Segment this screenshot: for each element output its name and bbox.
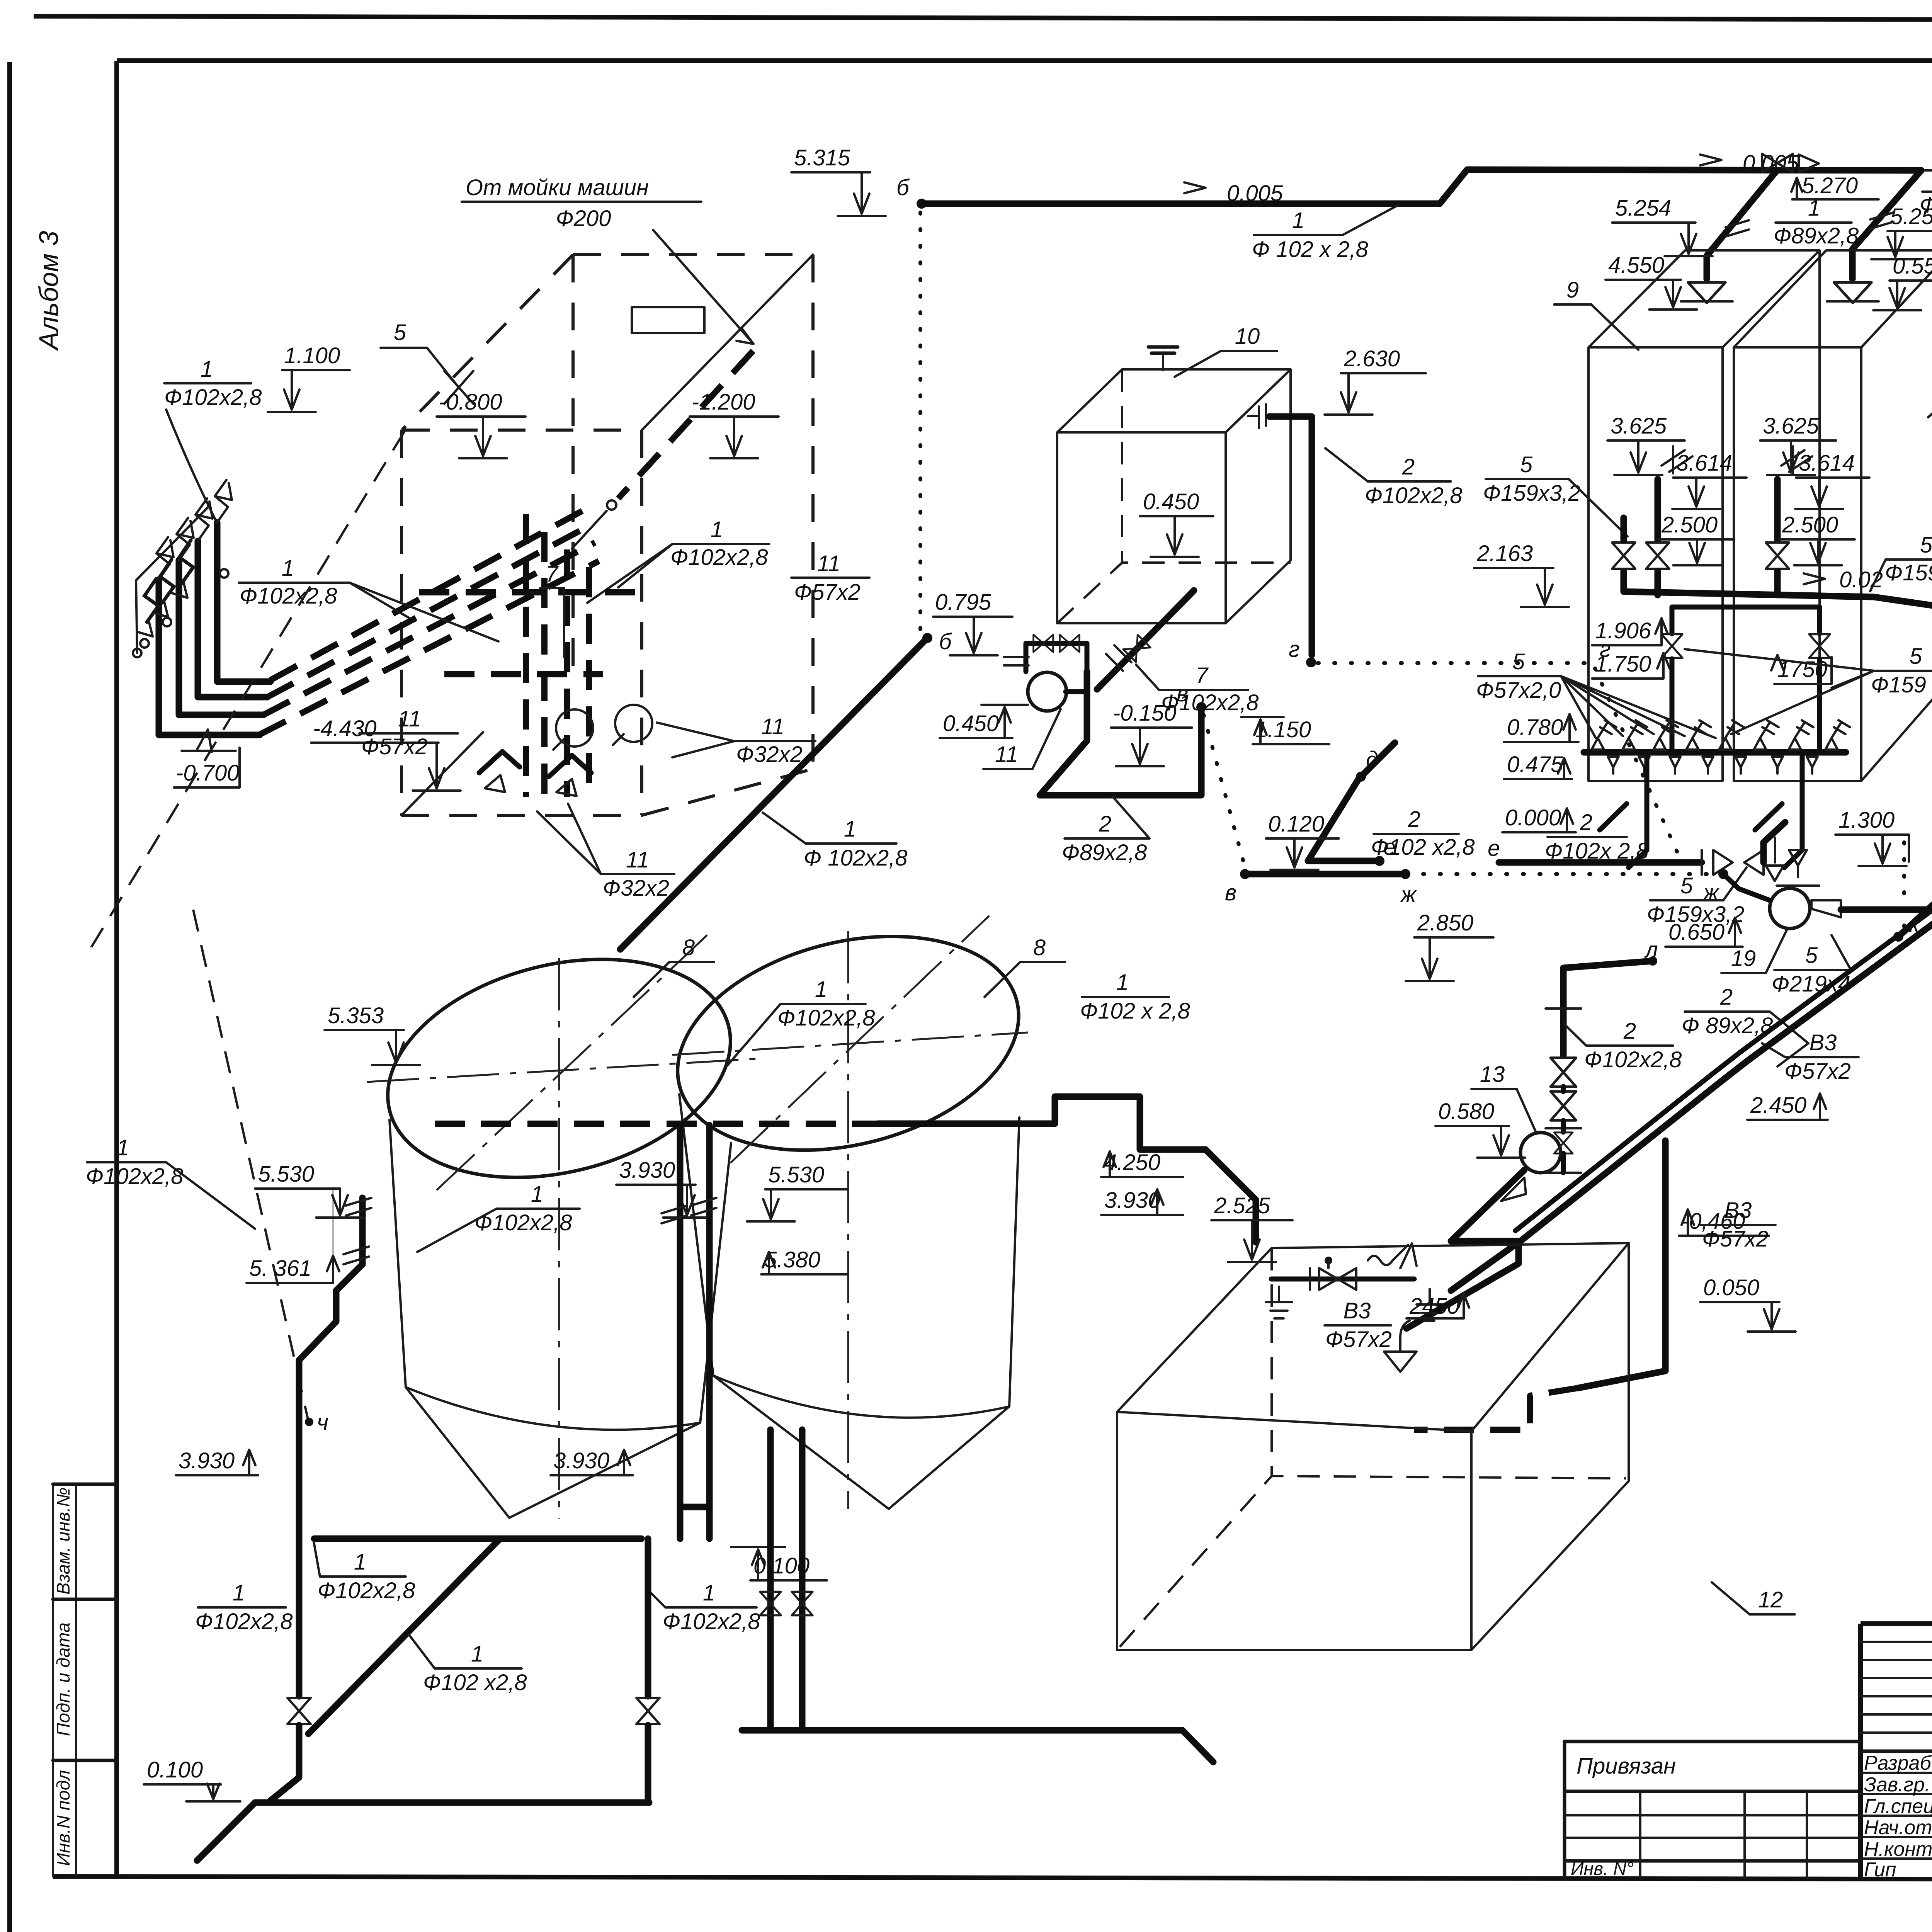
svg-text:2.500: 2.500 [1661,512,1718,537]
privyazan table [1565,1742,1861,1879]
stamp text Vzam inv [53,1487,73,1595]
tank 10 box front face [1057,432,1226,623]
label 0.475 [1504,752,1572,779]
svg-text:1: 1 [1808,196,1820,221]
svg-text:0.650: 0.650 [1668,920,1725,945]
label 5.252 [1923,130,1932,170]
label 1.906 [1592,618,1668,645]
svg-text:1: 1 [354,1549,366,1575]
left drop pipe with valve [270,1539,311,1801]
right tank internal riser [1777,446,1812,540]
svg-text:0.780: 0.780 [1507,715,1563,740]
label 5.380 [761,1247,848,1274]
svg-text:7: 7 [546,561,559,587]
label 1 F102x2.8 left column [195,1580,293,1634]
svg-text:Нач.отд: Нач.отд [1864,1816,1932,1839]
label 5.353 [325,1003,420,1065]
pump 13 circle [1501,1133,1561,1201]
svg-text:2.630: 2.630 [1344,346,1400,371]
riser into left tank 9 [1681,171,1776,303]
pipe from pump 13 down to box 12 [1406,1170,1524,1328]
label 0.795 [933,590,1012,655]
collector left valve [1612,518,1635,569]
big diagonal pipe 1 F102x2.8 [308,1539,500,1734]
label 3.930 upper middle [616,1158,711,1218]
node g dot and dotted line [1289,637,1611,667]
stacked valves above pump 13 [1546,1128,1581,1173]
svg-text:Ф102х2,8: Ф102х2,8 [777,1005,875,1031]
inner frame left line [114,61,119,1878]
svg-text:Ф102х2,8: Ф102х2,8 [318,1578,415,1603]
svg-text:Гл.спец.: Гл.спец. [1864,1795,1932,1818]
svg-text:1: 1 [117,1135,129,1160]
big transit double pipe upper [1451,739,1932,1291]
svg-text:Ф200: Ф200 [556,206,611,231]
label 1 F89x2.8 center top [1774,196,1859,248]
svg-text:2: 2 [1623,1019,1636,1044]
label 11 F32x2 bottom [537,804,674,901]
drip valves under manifold [1608,757,1818,774]
label 3.614 right [1795,451,1869,509]
svg-text:Ф 102 х 2,8: Ф 102 х 2,8 [1252,237,1368,262]
label 0.100 bottom left [144,1757,240,1801]
label 2 F89x2.8 diagonal [1682,985,1808,1066]
svg-text:Ф102х2,8: Ф102х2,8 [663,1609,760,1634]
outlet pipe 2 from tank 10 [1248,404,1312,655]
svg-text:5: 5 [1520,452,1533,477]
dashed vertical drops inside building [526,514,589,797]
svg-text:5.270: 5.270 [1802,173,1858,198]
svg-text:1: 1 [282,556,294,581]
right vertical pipe pair bottom [680,1507,709,1539]
svg-text:Ф102х2,8: Ф102х2,8 [240,583,337,609]
building 5 dashed bottom edges [401,732,813,815]
label 3.930 right [1101,1188,1183,1215]
label 8 left [634,935,714,997]
svg-text:-1.200: -1.200 [692,389,755,415]
svg-text:5: 5 [394,320,406,345]
svg-text:0.120: 0.120 [1268,811,1324,837]
pipe inside box 12 with valve [1271,1257,1414,1290]
label 12 [1712,1582,1795,1614]
svg-text:Ф89х2,8: Ф89х2,8 [1774,223,1859,248]
label -4.430 [311,716,461,791]
box 12 front face [1117,1412,1471,1650]
label 11 F57x2 lower [359,706,458,759]
check valve symbols on top run [1762,154,1819,172]
label V3 F57x2 diagonal [1762,1030,1859,1084]
label 2.500 left [1658,512,1734,565]
svg-text:Ф159х32: Ф159х32 [1885,560,1932,585]
svg-text:7: 7 [1196,663,1209,688]
svg-text:8: 8 [1033,935,1046,960]
label 5.254 right [1871,204,1932,259]
label 2.630 [1325,346,1426,415]
label 1 F102x2.8 diagonal [409,1634,527,1695]
long collector pipe from b to tanks 8 [620,638,927,949]
svg-text:Гип: Гип [1864,1859,1896,1881]
label 1 F102x2.8 at mains [239,556,498,641]
svg-text:1: 1 [471,1641,483,1667]
svg-text:11: 11 [995,742,1018,767]
label 0.050 [1700,1275,1796,1332]
svg-text:Ф102х2,8: Ф102х2,8 [1365,483,1463,508]
label 0.120 [1266,811,1339,870]
node b top dot [896,175,927,209]
svg-text:0.005: 0.005 [1227,181,1283,206]
svg-text:д: д [1366,747,1378,772]
node q dot [305,1410,328,1435]
svg-text:1.750: 1.750 [1595,651,1651,677]
svg-text:б: б [939,629,952,654]
svg-text:5. 361: 5. 361 [249,1256,311,1281]
svg-text:11: 11 [398,706,421,731]
collector pipe 0.02 [1624,571,1932,617]
svg-text:5.254: 5.254 [1615,196,1671,221]
outer border left [7,62,12,1932]
tank 9 left box [1588,250,1820,781]
sprinkler riser pipe 1 [215,480,270,682]
svg-text:3.614: 3.614 [1676,451,1732,476]
svg-text:Зав.гр.: Зав.гр. [1864,1774,1930,1796]
label 0.780 [1504,714,1578,742]
staff labels [1864,1752,1932,1881]
small thick elbows under tanks room [479,752,591,796]
svg-text:1: 1 [531,1182,543,1207]
svg-text:ч: ч [317,1410,328,1435]
svg-text:1: 1 [1292,208,1304,233]
site boundary dashed line B [193,910,308,1419]
label 1 F102x2.8 on collector [763,813,908,871]
label 5 F159x3.2 at zh [1647,867,1747,927]
label 4.250 [1101,1150,1183,1177]
label 3.625 left [1607,413,1685,475]
label 0.650 [1665,918,1743,947]
svg-text:Ф159 х3,2: Ф159 х3,2 [1871,672,1932,697]
outer border top [34,16,1932,21]
svg-text:1.100: 1.100 [284,343,340,368]
right drop pipe with valve [636,1539,660,1803]
stacked valves under l [1546,1009,1581,1128]
label 1 F102x2.8 low left tank [417,1182,580,1252]
tank 10 hidden edges [1057,369,1291,623]
svg-text:Ф57х2: Ф57х2 [1702,1226,1769,1252]
pump 11 valve loop [1026,635,1087,672]
pipe F200 thick dashed diagonal [572,351,753,549]
label -0.460 [1679,1209,1769,1236]
svg-text:0.050: 0.050 [1703,1275,1759,1300]
ground symbols in box 12 [1266,1287,1443,1321]
label 11 F57x2 in building [791,551,869,605]
label 1.300 [1835,808,1909,866]
svg-text:5.254: 5.254 [1890,204,1932,229]
inner frame bottom line [53,1876,1932,1880]
svg-text:Ф102х2,8: Ф102х2,8 [164,385,262,410]
svg-text:2: 2 [1720,985,1733,1010]
svg-text:5: 5 [1512,649,1525,674]
label 5 with leader [381,320,473,404]
svg-text:в: в [1225,880,1236,905]
dotted zh line [1406,869,1728,905]
double valve group on e pipe [1702,838,1775,875]
svg-text:9: 9 [1566,277,1579,303]
svg-text:г: г [1289,637,1300,662]
svg-text:0.795: 0.795 [935,590,992,615]
svg-text:-0.800: -0.800 [439,389,502,415]
tank 10 box right face [1226,369,1291,623]
tank 8 right cylinder sides [679,1094,1019,1418]
label 1750 right [1771,655,1832,684]
label V3 F57x2 right of box12 [1701,1198,1776,1252]
svg-text:1.300: 1.300 [1838,808,1895,833]
svg-text:10: 10 [1235,324,1260,349]
level label -1.200 [690,389,779,458]
svg-text:5: 5 [1920,532,1932,558]
label 2 F102x2.8 under manifold [1545,810,1649,864]
zigzag break on pipe 2.525 [1368,1243,1417,1268]
node v dot [1177,681,1206,712]
window rectangle on building [632,307,704,333]
svg-text:0.100: 0.100 [147,1757,203,1782]
label 0.580 [1435,1099,1525,1158]
tank 8 right centerlines [672,916,1028,1509]
node e stub diagonal [1308,835,1396,866]
svg-text:Ф102х2,8: Ф102х2,8 [86,1164,184,1189]
svg-text:2.163: 2.163 [1476,541,1533,566]
label 1 F102x2.8 upper left [164,357,262,522]
svg-text:Ф57х2: Ф57х2 [361,734,428,759]
node b lower dot and stub [922,629,952,654]
svg-text:В3: В3 [1725,1198,1752,1223]
tank 10 box top face [1057,369,1291,432]
pump 11 discharge pipe [1040,672,1201,795]
svg-text:11: 11 [761,714,784,739]
pipe after valves up to tanks [1764,822,1785,862]
svg-text:11: 11 [817,551,840,576]
manifold drop pipes to e line [1600,752,1802,867]
riser into right tank 9 [1827,170,1921,303]
svg-text:1: 1 [703,1580,715,1605]
label 5.530 left [255,1162,364,1218]
sprinkler riser pipe 3 [177,518,264,715]
dotted link g to e-line [1595,668,1679,856]
label 11 F32x2 right [657,714,815,767]
slope 0.02 [1804,567,1883,592]
slope mark 0.005 first [1184,181,1283,206]
label 1 F102x2.8 right column [650,1580,760,1634]
tank 8 left centerlines [367,935,757,1519]
slanted plane line of risers [136,505,210,653]
svg-text:1: 1 [233,1580,245,1605]
label 3.614 left [1672,451,1747,509]
label 5.530 middle [747,1162,848,1221]
box 12 hidden edges [1120,1248,1626,1647]
dashed pipe inside box 12 right [1414,1388,1578,1430]
svg-text:0.580: 0.580 [1438,1099,1494,1124]
svg-text:19: 19 [1731,946,1756,971]
label 3.930 bottom left [176,1448,258,1475]
site boundary dashed line A [87,431,405,954]
node zh line v-zh [1225,869,1417,907]
svg-text:0.475: 0.475 [1507,752,1563,777]
svg-text:Альбом 3: Альбом 3 [34,231,64,351]
dashed supply mains to building [259,507,599,735]
left stamp column grid [53,1484,117,1876]
svg-text:1: 1 [711,517,723,542]
svg-text:Ф102х2,8: Ф102х2,8 [670,545,768,570]
svg-text:2: 2 [1580,810,1592,835]
label 7 F102x2.8 [1136,663,1259,715]
valve handwheel circles in building [553,705,652,750]
bottom collector to the right [742,1730,1213,1762]
label 2.500 right [1779,512,1855,565]
label 1 F102x2.8 right of tanks [1080,970,1190,1024]
tank 10 breather [1148,347,1178,370]
svg-text:2.450: 2.450 [1750,1093,1806,1118]
svg-text:Разраб.: Разраб. [1864,1752,1932,1774]
label 0.000 [1502,805,1576,832]
right tank riser to collector [1774,571,1781,595]
svg-text:11: 11 [626,847,649,872]
svg-text:-0.150: -0.150 [1113,701,1176,726]
pipe from e up to d [1308,779,1359,861]
svg-text:В3: В3 [1344,1298,1371,1323]
vertical branch minus 0.460 [1578,1141,1665,1388]
sprinkler manifold pipe [1584,749,1846,756]
svg-text:4.250: 4.250 [1104,1150,1160,1175]
label Ot moiki mashin F200 [462,175,753,344]
twin risers from between tanks with valves [760,1430,813,1730]
horizontal pipe under tanks [314,1536,641,1542]
svg-text:0.450: 0.450 [1143,489,1199,514]
label 10 [1175,324,1277,377]
svg-text:2.525: 2.525 [1214,1193,1270,1218]
svg-text:В3: В3 [1810,1030,1837,1055]
title block staff rows [1861,1773,1932,1859]
svg-text:2450: 2450 [1409,1294,1459,1319]
label 3.936 bottom middle [551,1448,633,1475]
svg-text:Взам. инв.№: Взам. инв.№ [53,1487,73,1595]
label -0.700 [174,730,240,787]
label 1.750 left [1592,651,1670,679]
svg-text:3.614: 3.614 [1799,451,1855,476]
svg-text:Ф57х2,0: Ф57х2,0 [1476,678,1561,703]
label 9 left [1554,277,1638,350]
riser end circles [133,569,228,657]
box 12 right face [1471,1243,1629,1650]
valve loop rectangle under tanks [1662,607,1830,752]
svg-text:Н.контр: Н.контр [1864,1838,1932,1861]
svg-text:4.550: 4.550 [1608,253,1664,278]
svg-text:5: 5 [1680,873,1693,898]
svg-text:Ф102 х2,8: Ф102 х2,8 [423,1670,527,1695]
svg-text:3.625: 3.625 [1763,413,1819,439]
label 5 F219x4 [1772,935,1851,997]
svg-text:Ф 102х2,8: Ф 102х2,8 [804,845,908,871]
label 8 right [985,935,1065,997]
svg-text:От мойки машин: От мойки машин [466,175,649,200]
svg-text:1: 1 [201,357,213,382]
vertical text Album 3 [34,231,64,351]
label 13 [1471,1062,1536,1132]
label 3.625 right [1760,413,1836,475]
left tank internal riser [1658,446,1692,540]
svg-text:Ф57х2: Ф57х2 [1784,1059,1851,1084]
label 5 F159x32 right [1870,532,1932,591]
svg-text:0.550: 0.550 [1893,253,1932,279]
tank 8 left cylinder sides [389,1120,731,1430]
label 5 F159x3.2 left fan [1483,452,1628,536]
pump 11 circle [1004,657,1087,711]
svg-text:5.530: 5.530 [768,1162,824,1187]
pump 19 circle [1770,888,1841,929]
svg-text:Ф102х2,8: Ф102х2,8 [195,1609,293,1634]
slope mark 0.005 second [1700,151,1799,176]
svg-text:б: б [896,175,910,200]
svg-text:13: 13 [1480,1062,1505,1087]
label 4.550 [1605,253,1697,310]
svg-text:0.450: 0.450 [943,711,999,736]
svg-text:1: 1 [815,977,827,1002]
middle riser pipes between tanks [662,1125,716,1539]
label 2.450 [1747,1093,1828,1120]
pump 19 suction from zh [1723,866,1784,900]
label 2.525 [1211,1193,1293,1262]
label 7 with bracket [540,561,564,657]
tank 8 left ellipse top [365,926,754,1211]
svg-text:5.530: 5.530 [258,1162,314,1187]
building 5 dashed box top edges [402,255,813,430]
label 1 F89x2.8 right riser [1920,165,1932,218]
svg-text:0.000: 0.000 [1505,805,1561,830]
right tank valve 2.500 [1766,543,1789,569]
svg-text:3.930: 3.930 [619,1158,675,1183]
label 2450 boxed [1406,1294,1469,1319]
label 1.100 [268,343,350,412]
thick pipe right of tanks to 4.250 [878,1097,1256,1242]
svg-text:Ф102 х2,8: Ф102 х2,8 [1371,835,1475,860]
svg-text:5: 5 [1805,943,1818,968]
dotted v to e line [1204,715,1245,867]
svg-text:Ф57х2: Ф57х2 [1325,1327,1392,1352]
svg-text:3.930: 3.930 [179,1448,235,1473]
left tank riser to collector [1655,571,1661,595]
tank 8 right ellipse top [655,903,1041,1184]
sprinklers on manifold [1592,720,1850,750]
svg-text:5: 5 [1910,644,1922,669]
svg-text:2.500: 2.500 [1782,512,1838,537]
pipe k up right thick [1898,846,1932,937]
label 0.450 on tank10 [1140,489,1213,557]
title block revision mini grid [1861,1624,1932,1879]
svg-text:3.625: 3.625 [1611,413,1667,439]
node k dot [1893,842,1920,942]
label 5.315 [791,145,886,216]
svg-text:12: 12 [1758,1587,1783,1612]
svg-text:Привязан: Привязан [1577,1753,1676,1779]
label 0.100 right [731,1547,827,1580]
label 5 F57x2.0 [1476,649,1716,738]
svg-text:Ф 89х2,8: Ф 89х2,8 [1682,1013,1773,1038]
label 1 F102x2.8 mid under pipe [314,1542,415,1603]
svg-text:3.930: 3.930 [553,1448,609,1473]
label -0.150 [1111,701,1192,766]
label 19 [1721,929,1787,973]
node d with stub [1356,743,1395,782]
svg-text:Ф159х3,2: Ф159х3,2 [1483,481,1581,506]
dotted line from node b down [918,213,922,630]
building 5 dashed verticals [401,255,813,815]
